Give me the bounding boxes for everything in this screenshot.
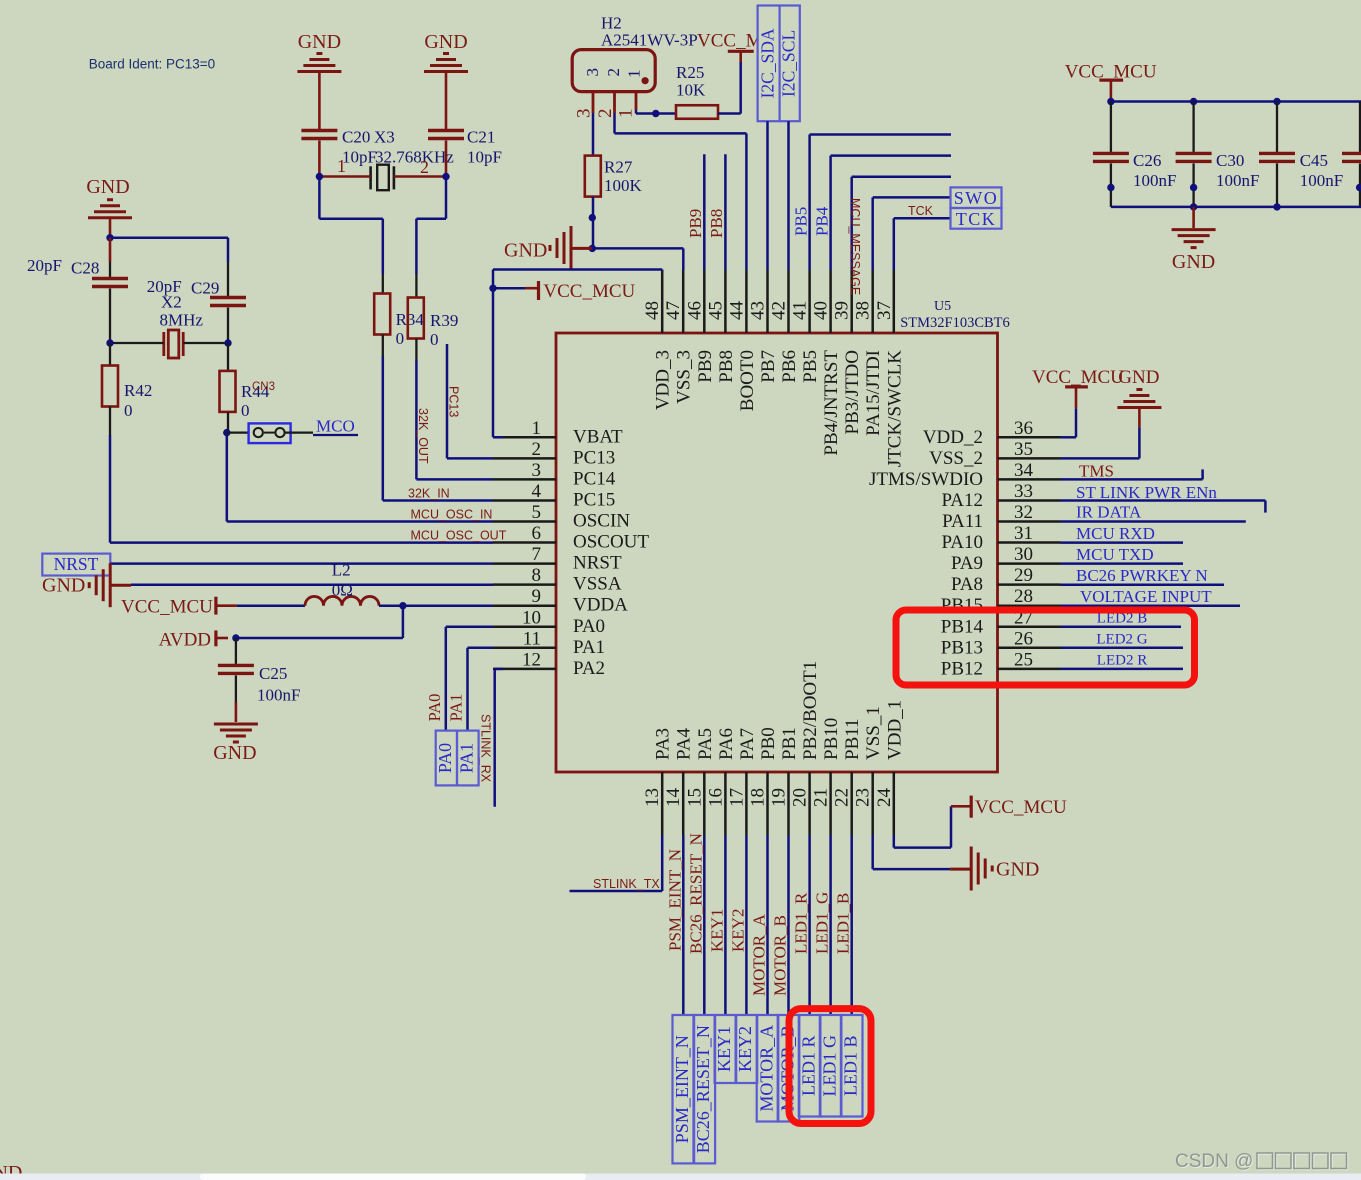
svg-text:PC13: PC13 (573, 447, 615, 468)
wire pin to BC26_RESET_N box (703, 835, 706, 1015)
svg-text:2: 2 (420, 157, 429, 177)
H2 pin1 dot (642, 77, 649, 84)
wire IR_DATA net (1061, 520, 1246, 523)
pin 3 PC14 (left stub+number+name) (493, 478, 556, 481)
capacitor C30 (1192, 102, 1194, 152)
svg-text:10pF: 10pF (467, 148, 502, 167)
svg-text:GND: GND (996, 859, 1039, 881)
svg-text:PA1: PA1 (573, 637, 605, 658)
power GND (cap rail) (1192, 207, 1195, 228)
capacitor C20 (301, 129, 337, 132)
svg-text:PA3: PA3 (653, 728, 674, 760)
power VCC_MCU (pin36) (1065, 385, 1088, 388)
bottom scrollbar strip (0, 1174, 1361, 1180)
svg-text:PB8: PB8 (707, 209, 726, 238)
capacitor C45 (1276, 102, 1278, 152)
svg-text:PA10: PA10 (941, 532, 983, 553)
capacitor C26 (1110, 102, 1112, 152)
svg-text:PB9: PB9 (686, 209, 705, 238)
pin 20 PB2/BOOT1 (bottom stub+number+name) (808, 772, 811, 835)
wire GND node to pin47 (592, 247, 683, 250)
pin 32 PA11 (right stub+number+name) (998, 520, 1061, 523)
svg-text:VSS_1: VSS_1 (863, 706, 884, 760)
svg-text:29: 29 (1014, 565, 1033, 586)
node rail C26 (1107, 98, 1114, 105)
node R27-GND junction (589, 245, 596, 252)
net label box PSM_EINT_N (673, 1015, 695, 1163)
wire 32K net right down (445, 177, 448, 219)
svg-text:STLINK_RX: STLINK_RX (479, 714, 493, 783)
svg-text:12: 12 (522, 649, 541, 670)
svg-text:VSS_3: VSS_3 (674, 350, 695, 404)
H2 pin stubs (592, 91, 595, 113)
svg-text:KEY1: KEY1 (714, 1026, 734, 1072)
svg-text:GND: GND (424, 31, 467, 53)
node rail C45 (1273, 98, 1280, 105)
wire pin11 PA1 to box (468, 647, 494, 650)
svg-text:10pF: 10pF (342, 148, 377, 167)
svg-text:BC26_RESET_N: BC26_RESET_N (693, 1025, 713, 1153)
node X2-right junction (224, 339, 231, 346)
power GND left (for C28) (88, 216, 132, 219)
svg-text:42: 42 (769, 301, 790, 320)
svg-text:NRST: NRST (54, 554, 99, 574)
svg-text:Board Ident: PC13=0: Board Ident: PC13=0 (89, 57, 215, 72)
svg-text:VSSA: VSSA (573, 574, 622, 595)
svg-text:PB3/JTDO: PB3/JTDO (842, 350, 863, 434)
wire ST_LINK_PWR_ENn net (1061, 499, 1266, 502)
power AVDD (214, 630, 217, 646)
node R27 mid junction (589, 214, 596, 221)
svg-text:10K: 10K (676, 81, 706, 100)
svg-text:STLINK_TX: STLINK_TX (593, 877, 660, 891)
svg-text:43: 43 (748, 301, 769, 320)
svg-text:30: 30 (1014, 544, 1033, 565)
wire pin10 PA0 to box (446, 626, 493, 629)
svg-text:L2: L2 (332, 561, 351, 580)
pin 41 PB5 (top stub+number+name) (808, 270, 811, 333)
svg-text:10: 10 (522, 607, 541, 628)
node AVDD-C25 junction (232, 634, 239, 641)
svg-text:CN3: CN3 (252, 381, 275, 393)
svg-text:TMS: TMS (1079, 462, 1114, 481)
svg-text:PB1: PB1 (779, 727, 800, 760)
svg-text:GND: GND (1172, 251, 1215, 273)
pin 9 VDDA (left stub+number+name) (493, 604, 556, 607)
net label box MOTOR_A (757, 1015, 779, 1122)
svg-text:PA6: PA6 (716, 728, 737, 760)
svg-text:100nF: 100nF (1216, 171, 1259, 190)
crystal X3 symbol (369, 166, 372, 189)
wire H2 pin3 to R27 (592, 113, 595, 156)
wire LED2_G net (1061, 647, 1184, 650)
svg-text:22: 22 (832, 788, 853, 807)
svg-text:28: 28 (1014, 586, 1033, 607)
node X3-1 junction (316, 173, 323, 180)
pin 15 PA5 (bottom stub+number+name) (703, 772, 706, 835)
wire X3 left lead (319, 175, 370, 178)
svg-text:GND: GND (504, 240, 547, 262)
svg-text:MOTOR_A: MOTOR_A (750, 913, 769, 996)
pin 21 PB10 (bottom stub+number+name) (829, 772, 832, 835)
pin 26 PB13 (right stub+number+name) (998, 647, 1061, 650)
wire VCC node to pin48 (492, 270, 495, 289)
svg-text:OSCOUT: OSCOUT (573, 532, 649, 553)
wire VCC to pin36 (1075, 408, 1078, 437)
svg-text:TCK: TCK (956, 209, 997, 229)
svg-text:MCU_MESSAGE: MCU_MESSAGE (848, 198, 862, 295)
wire pin to PSM_EINT_N box (682, 835, 685, 1015)
resistor R42 (109, 343, 111, 366)
svg-text:VCC_MCU: VCC_MCU (543, 281, 635, 302)
node C28-top junction (106, 234, 113, 241)
svg-text:X2: X2 (161, 293, 182, 312)
wire cap top rail (1111, 100, 1361, 103)
power VCC_MCU (pin48) (537, 281, 540, 300)
wire gnd node down to C28 (109, 238, 112, 262)
svg-text:LED1_R: LED1_R (792, 892, 811, 954)
wire H2 pin2 to pin44 (613, 113, 616, 133)
svg-text:KEY1: KEY1 (707, 909, 726, 952)
svg-text:8: 8 (532, 565, 542, 586)
svg-text:PB6: PB6 (779, 350, 800, 383)
connector H2 body (572, 50, 655, 92)
capacitor C-edge (partial) (1359, 102, 1361, 152)
svg-text:LED1_G: LED1_G (813, 892, 832, 954)
wire pin12 PA2 (STLINK_RX) (495, 668, 503, 671)
svg-text:PA4: PA4 (674, 727, 695, 760)
wire pin37 to TCK box (893, 218, 896, 270)
svg-text:100nF: 100nF (1300, 171, 1343, 190)
svg-text:PB5: PB5 (800, 350, 821, 383)
svg-text:PB9: PB9 (695, 350, 716, 383)
svg-text:MCU_OSC_IN: MCU_OSC_IN (411, 508, 493, 522)
node H2pin1-R25 junction (652, 110, 659, 117)
pin 43 PB7 (top stub+number+name) (766, 270, 769, 333)
node X2-left junction (106, 339, 113, 346)
wire pin to MOTOR_A box (766, 835, 769, 1015)
svg-text:KEY2: KEY2 (735, 1026, 755, 1072)
svg-text:JTMS/SWDIO: JTMS/SWDIO (869, 469, 983, 490)
wire VCC node to pin1 VBAT (492, 288, 495, 437)
pin 48 VDD_3 (top stub+number+name) (661, 270, 664, 333)
pin 18 PB0 (bottom stub+number+name) (766, 772, 769, 835)
svg-text:17: 17 (726, 788, 747, 807)
svg-text:PA5: PA5 (695, 728, 716, 760)
wire pin to LED1_R box (808, 835, 811, 1015)
wire VOLTAGE_INPUT net (1061, 604, 1241, 607)
svg-text:ST LINK PWR ENn: ST LINK PWR ENn (1076, 483, 1217, 502)
svg-text:C30: C30 (1216, 151, 1244, 170)
node R44-CN3 junction (223, 429, 230, 436)
svg-text:LED2 R: LED2 R (1097, 653, 1147, 669)
resistor R44 (227, 343, 229, 371)
svg-text:38: 38 (853, 301, 874, 320)
svg-text:PA0: PA0 (573, 616, 605, 637)
svg-text:100nF: 100nF (1133, 171, 1176, 190)
pin 27 PB14 (right stub+number+name) (998, 626, 1061, 629)
wire X2 left lead (110, 342, 164, 344)
svg-text:X3: X3 (374, 128, 395, 147)
pin 44 BOOT0 (top stub+number+name) (745, 270, 748, 333)
svg-text:C26: C26 (1133, 151, 1161, 170)
wire pin38 to SWO box (871, 197, 874, 270)
wire TMS net (1061, 478, 1203, 481)
pin 13 PA3 (bottom stub+number+name) (661, 772, 664, 835)
pin 46 PB9 (top stub+number+name) (703, 270, 706, 333)
svg-text:LED1_B: LED1_B (834, 893, 853, 954)
svg-text:PA2: PA2 (573, 658, 605, 679)
svg-text:13: 13 (642, 788, 663, 807)
svg-text:PA8: PA8 (951, 574, 983, 595)
svg-text:100K: 100K (604, 176, 643, 195)
wire L2 node down to AVDD rail (402, 606, 405, 638)
svg-text:24: 24 (874, 788, 895, 808)
net label box PA1 (457, 731, 479, 786)
pin 35 VSS_2 (right stub+number+name) (998, 457, 1061, 460)
pin 17 PA7 (bottom stub+number+name) (745, 772, 748, 835)
svg-text:VDDA: VDDA (573, 595, 628, 616)
node rail C30 (1190, 98, 1197, 105)
svg-text:VOLTAGE INPUT: VOLTAGE INPUT (1080, 587, 1212, 606)
wire X2 right lead (183, 342, 228, 344)
wire pin to KEY1 box (724, 835, 727, 1015)
wire LED2_B net (1061, 626, 1182, 629)
pin 38 PA15/JTDI (top stub+number+name) (871, 270, 874, 333)
capacitor C29 (227, 262, 229, 296)
svg-text:CSDN @: CSDN @ (1175, 1151, 1253, 1172)
svg-text:34: 34 (1014, 460, 1034, 481)
pin 31 PA10 (right stub+number+name) (998, 541, 1061, 544)
pin 5 OSCIN (left stub+number+name) (493, 520, 556, 523)
pin 37 JTCK/SWCLK (top stub+number+name) (893, 270, 896, 333)
wire R42 to pin6 (MCU_OSC_OUT) (109, 435, 112, 543)
svg-text:I2C_SCL: I2C_SCL (779, 30, 799, 97)
svg-text:2: 2 (532, 439, 542, 460)
svg-text:44: 44 (726, 301, 747, 321)
svg-text:0: 0 (396, 329, 405, 348)
svg-text:32K_OUT: 32K_OUT (416, 408, 430, 464)
svg-text:BC26_RESET_N: BC26_RESET_N (686, 833, 705, 954)
svg-text:9: 9 (532, 586, 542, 607)
net label box KEY1 (715, 1015, 737, 1083)
inductor L2 (237, 604, 305, 607)
svg-text:36: 36 (1014, 418, 1033, 439)
pin 2 PC13 (left stub+number+name) (493, 457, 556, 460)
wire LED2_R net (1061, 668, 1184, 671)
svg-text:R34: R34 (396, 310, 425, 329)
svg-text:23: 23 (853, 788, 874, 807)
pin 25 PB12 (right stub+number+name) (998, 668, 1061, 671)
svg-text:PA11: PA11 (942, 511, 983, 532)
svg-text:PA15/JTDI: PA15/JTDI (863, 350, 884, 436)
svg-text:VCC_MCU: VCC_MCU (121, 597, 213, 618)
resistor R25 (676, 105, 718, 119)
svg-text:0: 0 (124, 401, 133, 420)
pin 30 PA9 (right stub+number+name) (998, 562, 1061, 565)
svg-text:15: 15 (684, 788, 705, 807)
svg-text:41: 41 (790, 301, 811, 320)
capacitor C25 (235, 638, 237, 664)
capacitor C21 (428, 129, 464, 132)
svg-text:C20: C20 (342, 128, 370, 147)
wire pin to LED1_B box (850, 835, 853, 1015)
svg-text:LED1 G: LED1 G (819, 1035, 839, 1097)
svg-text:40: 40 (811, 301, 832, 320)
svg-text:39: 39 (832, 301, 853, 320)
op-amp U5 MCU body STM32F103CBT6 (556, 333, 998, 772)
svg-text:3: 3 (574, 109, 595, 119)
svg-text:VCC_MCU: VCC_MCU (1032, 367, 1124, 388)
pin 39 PB3/JTDO (top stub+number+name) (850, 270, 853, 333)
svg-text:PSM_EINT_N: PSM_EINT_N (665, 849, 684, 951)
svg-text:PB11: PB11 (842, 718, 863, 760)
net label box KEY2 (736, 1015, 758, 1083)
svg-text:20: 20 (790, 788, 811, 807)
svg-text:KEY2: KEY2 (728, 909, 747, 952)
svg-text:PB5: PB5 (792, 207, 811, 236)
svg-text:PA12: PA12 (941, 490, 983, 511)
wire L2 node to pin9 (403, 604, 493, 607)
net label box BC26_RESET_N (694, 1015, 716, 1163)
power VCC_MCU (H2 pullup) (728, 50, 754, 53)
svg-text:PB4/JNTRST: PB4/JNTRST (821, 350, 842, 456)
jumper CN3 (227, 431, 249, 433)
svg-text:A2541WV-3P: A2541WV-3P (601, 31, 698, 50)
crystal X2 symbol (162, 332, 165, 356)
wire pin to MOTOR_B box (787, 835, 790, 1015)
wire I2C_SCL to pin42 (787, 121, 790, 270)
wire R34 to pin4 (32K_IN) (382, 356, 385, 501)
wire pin24 to VCC (893, 835, 896, 848)
net label box SWO (951, 187, 1002, 208)
wire CN3 node to pin5 (MCU_OSC_IN) (226, 433, 229, 522)
pin 11 PA1 (left stub+number+name) (493, 647, 556, 650)
svg-text:31: 31 (1014, 523, 1033, 544)
svg-text:PSM_EINT_N: PSM_EINT_N (672, 1035, 692, 1143)
svg-text:I2C_SDA: I2C_SDA (758, 28, 778, 98)
svg-text:GND: GND (298, 31, 341, 53)
svg-text:7: 7 (532, 544, 542, 565)
svg-text:2: 2 (595, 109, 616, 119)
pin 16 PA6 (bottom stub+number+name) (724, 772, 727, 835)
svg-text:LED1 R: LED1 R (798, 1036, 818, 1097)
node bottom rail C45 (1273, 203, 1280, 210)
power GND below C25 (214, 723, 258, 726)
svg-text:GND: GND (213, 742, 256, 764)
svg-text:1: 1 (337, 156, 346, 176)
pin 34 JTMS/SWDIO (right stub+number+name) (998, 478, 1061, 481)
wire VSSA to pin8 (131, 583, 493, 586)
svg-text:AVDD: AVDD (159, 630, 211, 651)
svg-text:PB13: PB13 (941, 637, 983, 658)
node C26 bottom (1107, 184, 1114, 191)
highlight rect LED1 boxes (789, 1009, 871, 1124)
svg-text:VDD_2: VDD_2 (923, 427, 983, 448)
svg-text:25: 25 (1014, 649, 1033, 670)
svg-text:BC26 PWRKEY N: BC26 PWRKEY N (1076, 566, 1208, 585)
svg-text:PC15: PC15 (573, 490, 615, 511)
pin 4 PC15 (left stub+number+name) (493, 499, 556, 502)
power GND top-mid (for C21) (424, 70, 468, 73)
node VCC-VBAT junction (489, 285, 496, 292)
svg-text:5: 5 (532, 502, 542, 523)
svg-text:33: 33 (1014, 481, 1033, 502)
pin 45 PB8 (top stub+number+name) (724, 270, 727, 333)
svg-text:PB12: PB12 (941, 658, 983, 679)
svg-text:MCU RXD: MCU RXD (1076, 524, 1155, 543)
svg-text:PB10: PB10 (821, 718, 842, 760)
svg-text:2: 2 (604, 68, 623, 77)
svg-text:32: 32 (1014, 502, 1033, 523)
svg-text:PC13: PC13 (447, 386, 461, 417)
resistor R27 (585, 156, 601, 197)
svg-text:20pF: 20pF (27, 256, 62, 275)
wire cap bottom rail (1111, 206, 1361, 209)
svg-text:R25: R25 (676, 63, 704, 82)
svg-text:46: 46 (684, 301, 705, 320)
wire R39 to pin3 (32K_OUT) (415, 360, 418, 479)
wire BC26_PWRKEY_N net (1061, 583, 1225, 586)
pin 47 VSS_3 (top stub+number+name) (682, 270, 685, 333)
net label box TCK (951, 208, 1002, 229)
svg-text:6: 6 (532, 523, 542, 544)
net label box MOTOR_B (778, 1015, 800, 1122)
wire pin41 PB5 (808, 135, 811, 271)
pin 19 PB1 (bottom stub+number+name) (787, 772, 790, 835)
svg-text:STM32F103CBT6: STM32F103CBT6 (900, 315, 1010, 331)
power GND top-left (for C20) (297, 70, 341, 73)
node C-edge bottom (1356, 184, 1361, 191)
svg-text:GND: GND (86, 176, 129, 198)
wire 32K net left down (318, 177, 321, 219)
wire pin46 PB9 stub up (703, 154, 706, 270)
svg-text:VDD_3: VDD_3 (653, 350, 674, 410)
svg-text:C28: C28 (71, 259, 99, 278)
svg-text:PB4: PB4 (813, 206, 832, 236)
svg-text:1: 1 (616, 109, 637, 119)
svg-text:3: 3 (532, 460, 542, 481)
svg-text:37: 37 (874, 301, 895, 320)
net label box I2C_SCL (780, 6, 800, 122)
pin 36 VDD_2 (right stub+number+name) (998, 436, 1061, 439)
pin 7 NRST (left stub+number+name) (493, 562, 556, 565)
net label box LED1 B (841, 1015, 863, 1117)
svg-text:VCC_MCU: VCC_MCU (975, 797, 1067, 818)
svg-text:0: 0 (430, 330, 439, 349)
pin 28 PB15 (right stub+number+name) (998, 604, 1061, 607)
svg-text:8MHz: 8MHz (160, 311, 204, 330)
wire pin45 PB8 stub up (724, 154, 727, 270)
svg-text:16: 16 (705, 788, 726, 807)
wire NRST to pin7 (110, 562, 493, 565)
capacitor C28 (109, 262, 111, 277)
pin 1 VBAT (left stub+number+name) (493, 436, 556, 439)
svg-text:BOOT0: BOOT0 (737, 350, 758, 411)
wire PC13 stub to pin2 (446, 344, 449, 458)
svg-text:PB8: PB8 (716, 350, 737, 383)
svg-text:GND: GND (42, 575, 85, 597)
wire MCU_TXD net (1061, 562, 1184, 565)
svg-text:TCK: TCK (908, 204, 934, 218)
wire H2 pin1 to R25 (635, 110, 638, 114)
svg-text:21: 21 (811, 788, 832, 807)
pin 8 VSSA (left stub+number+name) (493, 583, 556, 586)
node bottom rail C30 (1190, 203, 1197, 210)
svg-text:14: 14 (663, 788, 684, 808)
svg-text:R39: R39 (430, 311, 458, 330)
svg-text:48: 48 (642, 301, 663, 320)
